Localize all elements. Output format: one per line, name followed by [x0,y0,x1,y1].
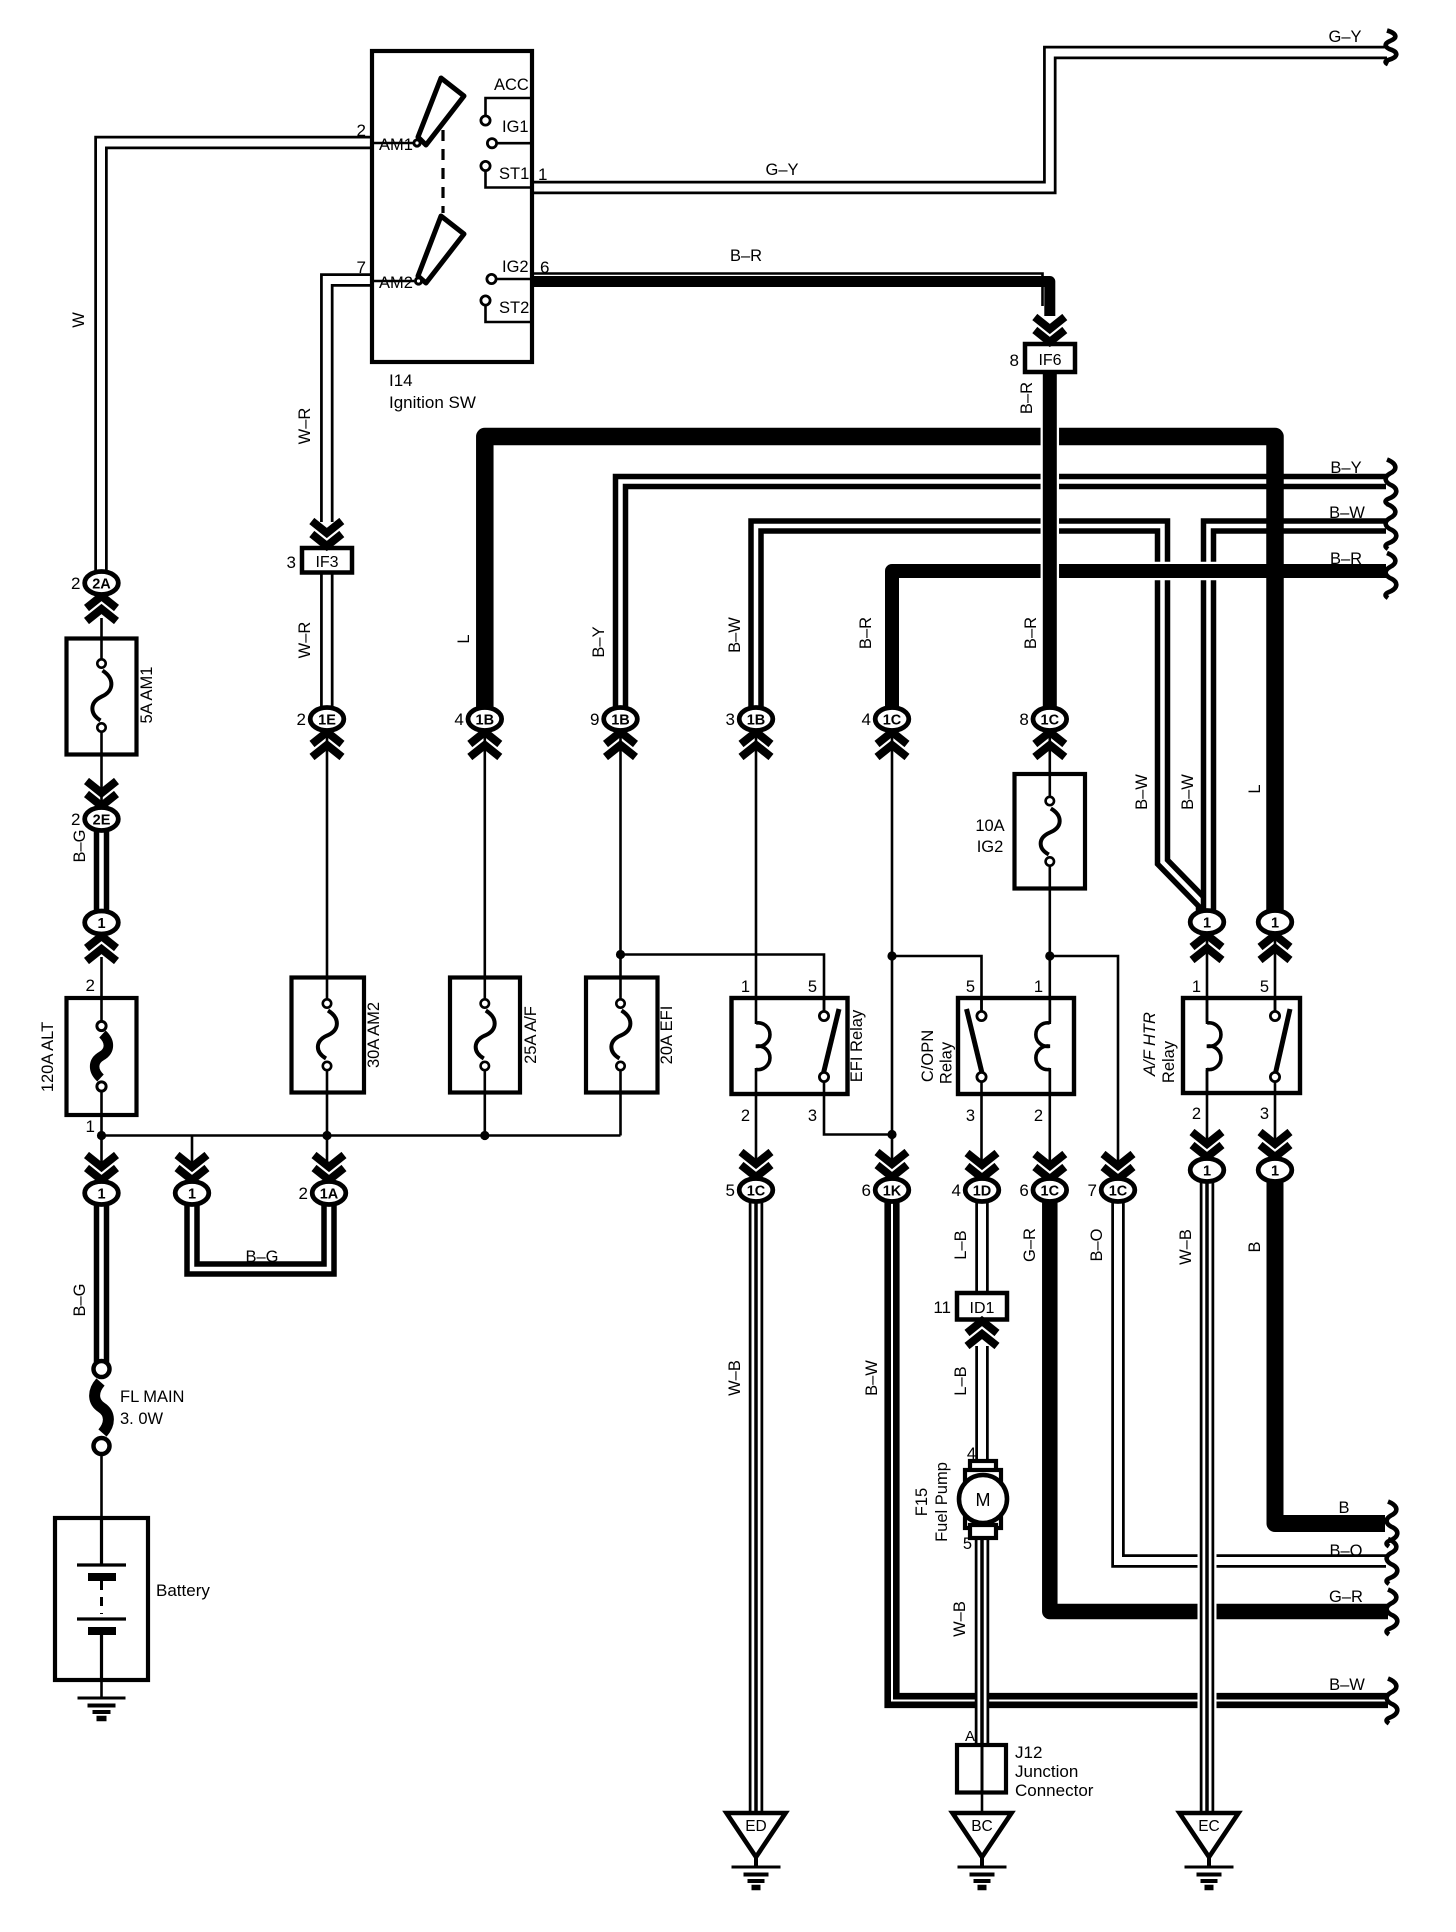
wire connector 1 to A/F HTR relay pin 5 [1274,935,1277,1014]
svg-text:IF6: IF6 [1038,352,1061,369]
arrow into 1C(5) [741,1152,771,1177]
svg-text:ST2: ST2 [499,299,529,317]
wire L from connector 1B to connector 1 [485,437,1275,911]
svg-text:1: 1 [86,1117,95,1136]
svg-text:B–R: B–R [730,247,762,265]
svg-text:1: 1 [1034,978,1043,996]
connector 1 AF top-left [1190,911,1224,934]
connector 1C pin4 [875,708,909,731]
wire ignition IG2 contact [496,278,532,281]
svg-text:1E: 1E [318,713,336,729]
connector 1B pin4 [468,708,502,731]
wire B-R from IF6 to connector 1C [1041,372,1060,707]
arrow into IF3 [312,521,342,546]
svg-text:3: 3 [287,553,296,572]
wire L-B from ID1 to fuel pump [975,1346,989,1464]
wire fuse 5A AM1 to connector 2E [100,730,103,808]
svg-text:AM1: AM1 [379,136,413,154]
connector 1C pin7 [1101,1179,1135,1202]
svg-text:B–G: B–G [245,1248,278,1266]
fuse 5A AM1 box [67,639,137,755]
svg-text:W–R: W–R [296,622,314,659]
svg-text:B–R: B–R [857,617,875,649]
svg-text:1B: 1B [611,713,630,729]
wire battery to ground [100,1680,103,1698]
svg-text:B–O: B–O [1088,1228,1106,1261]
svg-text:Ignition SW: Ignition SW [389,393,476,412]
svg-text:EFI Relay: EFI Relay [848,1009,866,1082]
svg-text:5: 5 [808,978,817,996]
node EFI pin3 junction [887,1130,896,1139]
arrow into 2E [87,781,117,806]
fuse 25A A/F element [481,999,489,1007]
svg-text:B–Y: B–Y [1330,459,1361,477]
wire A/F HTR relay pin 2 to connector 1 [1206,1070,1209,1144]
svg-text:IF3: IF3 [315,554,338,571]
contact AM1 [412,138,421,147]
wire C/OPN relay pin 3 to connector 1D [980,1080,983,1165]
arrow into 1C(6) [1035,1154,1065,1179]
svg-text:4: 4 [862,710,871,729]
relay A/F HTR switch [1274,998,1277,1011]
fuse IF3 box [302,548,352,573]
svg-text:B–O: B–O [1329,1542,1362,1560]
node bus-ALT junction [97,1131,106,1140]
contact IG1 [487,139,496,148]
svg-text:1: 1 [97,916,105,932]
svg-text:5: 5 [963,1535,972,1553]
wire B from connector 1 to right edge [1275,1182,1385,1524]
svg-text:2: 2 [741,1107,750,1125]
wire node to connector 1C(7) [1050,956,1118,1165]
svg-text:L: L [455,634,473,643]
svg-text:Connector: Connector [1015,1781,1094,1800]
svg-text:4: 4 [454,710,463,729]
svg-text:2: 2 [357,121,366,140]
wire ignition AM2 pin lead [374,280,414,283]
fuse IF6 box [1025,344,1075,372]
svg-text:W: W [70,312,88,328]
wire connector 1 to A/F HTR relay pin 1 [1206,935,1209,1022]
svg-text:1C: 1C [747,1184,766,1200]
ground BC [953,1813,1012,1857]
fuse 120A ALT box [67,998,137,1115]
wire connector 1 to fuse 120A ALT [100,957,103,1024]
svg-text:ID1: ID1 [970,1300,995,1317]
fuse 20A EFI element [616,999,624,1007]
wire node to EFI relay pin 5 [621,955,825,1015]
svg-text:W–B: W–B [726,1360,744,1396]
svg-text:B–G: B–G [71,829,89,862]
svg-text:2: 2 [71,574,80,593]
svg-text:I14: I14 [389,371,413,390]
svg-text:G–Y: G–Y [765,161,798,179]
svg-text:G–R: G–R [1021,1228,1039,1262]
ignition switch I14 box [372,51,532,362]
connector torn B-W [1386,504,1397,549]
svg-text:3: 3 [726,710,735,729]
svg-text:IG1: IG1 [502,118,529,136]
svg-text:B: B [1338,1499,1349,1517]
svg-text:IG2: IG2 [977,838,1004,856]
wire W-R from IF3 to connector 1E [320,573,334,708]
wire B-R from connector 1C to right edge [892,571,1386,707]
wire W-B from connector 1 to ground EC [1198,1182,1217,1813]
svg-text:5A AM1: 5A AM1 [138,667,156,724]
node EFI-feed junction [616,950,625,959]
fuse FL MAIN element [94,1361,110,1377]
svg-text:B–W: B–W [1133,774,1151,810]
connector torn B-O [1387,1539,1398,1584]
arrow into 1B(4) [470,732,500,757]
arrow into IF6 [1035,317,1065,342]
wire connector 1B(4) to fuse 25A A/F [483,731,486,1001]
fuse 30A AM2 element [323,999,331,1007]
connector torn B-W bottom [1387,1679,1398,1724]
svg-text:7: 7 [357,258,366,277]
wire fuse 10A IG2 to C/OPN relay pin 1 [1049,862,1052,1022]
arrow into 1C(4) [877,732,907,757]
ignition key wedge AM1 [418,78,464,145]
wire connector 1C(4) to connector 1K [891,731,894,1165]
wire ignition AM1 pin lead [374,142,413,145]
svg-text:2: 2 [297,710,306,729]
svg-text:1: 1 [188,1187,196,1203]
svg-text:W–B: W–B [1177,1229,1195,1265]
arrow into 1C(7) [1103,1154,1133,1179]
connector 1 AF bot-right [1258,1159,1292,1182]
svg-text:IG2: IG2 [502,258,529,276]
junction connector J12 [957,1745,1006,1793]
connector 1C pin6 [1033,1179,1067,1202]
wire B-W from connector 1K to right edge [892,1202,1388,1701]
svg-text:2: 2 [71,810,80,829]
svg-text:EC: EC [1198,1818,1220,1835]
wire connector 1B(9) to fuse 20A EFI [619,731,622,1001]
connector 1C pin8 [1033,708,1067,731]
svg-text:10A: 10A [975,817,1004,835]
relay C/OPN coil [1049,998,1052,1024]
arrow into ID1 [967,1321,997,1346]
connector 2A [85,572,119,595]
wire node to C/OPN relay pin 5 [892,956,982,1014]
svg-text:1: 1 [97,1187,105,1203]
connector torn B-Y [1386,460,1397,505]
svg-text:Fuel Pump: Fuel Pump [933,1462,951,1542]
svg-text:8: 8 [1019,710,1028,729]
svg-text:1: 1 [741,978,750,996]
contact IG2 [487,274,496,283]
svg-text:1: 1 [1271,1164,1279,1180]
svg-text:B–R: B–R [1018,382,1036,414]
svg-text:B–R: B–R [1330,550,1362,568]
connector 2E [85,808,119,831]
svg-text:2: 2 [86,976,95,995]
svg-text:G–R: G–R [1329,1588,1363,1606]
arrow into connector 1 AF left [1192,935,1222,960]
svg-text:A: A [965,1728,975,1745]
ignition key wedge AM2 [418,216,464,283]
svg-text:B–W: B–W [863,1360,881,1396]
contact AM2 [414,276,423,285]
svg-text:1: 1 [1271,916,1279,932]
svg-text:1C: 1C [1109,1184,1128,1200]
wire B-W from connector 1B west branch [756,526,1204,912]
svg-text:1: 1 [1192,978,1201,996]
contact ST1 [481,161,490,170]
wire B-W to right edge east branch [1209,526,1387,912]
arrow into 1C(8) [1035,732,1065,757]
arrow into connector 1 col2 [177,1155,207,1180]
wire ignition IG1 contact [497,142,533,145]
connector 1D pin4 [965,1179,999,1202]
svg-text:B–W: B–W [1329,1676,1365,1694]
wire EFI relay pin 3 elbow [824,1080,892,1135]
svg-text:1K: 1K [883,1184,902,1200]
wire connector 2A to fuse 5A AM1 [100,618,103,661]
svg-text:B–Y: B–Y [590,626,608,657]
svg-text:B–W: B–W [1329,504,1365,522]
svg-text:1: 1 [538,165,547,184]
fuse 25A A/F box [450,978,520,1093]
wire G-R from connector 1C to right edge [1050,1202,1388,1612]
svg-text:1C: 1C [1041,1184,1060,1200]
connector torn B-R [1386,553,1397,598]
wire B-O from connector 1C to right edge [1118,1202,1386,1561]
wire W from AM1 to connector 2A [101,143,374,572]
wire B-R from IG2 to IF6 [533,282,1050,317]
wire connector 1B(3) to EFI relay pin 1 [755,731,758,1000]
svg-text:2E: 2E [93,813,111,829]
connector torn G-R [1387,1590,1398,1635]
svg-text:9: 9 [590,710,599,729]
wire B-G from connector 2E to connector 1 [94,831,110,911]
svg-text:FL MAIN: FL MAIN [120,1388,184,1406]
wire fuse 25A A/F to bus [483,1068,486,1136]
svg-text:J12: J12 [1015,1743,1042,1762]
svg-text:L–B: L–B [952,1230,970,1259]
svg-text:B–G: B–G [71,1283,89,1316]
connector 1 AF bot-left [1190,1159,1224,1182]
svg-text:Junction: Junction [1015,1762,1078,1781]
svg-text:3. 0W: 3. 0W [120,1410,164,1428]
connector 1K pin6 [875,1179,909,1202]
svg-text:2A: 2A [92,577,111,593]
wire ignition ACC contact elbow [486,98,533,116]
relay C/OPN switch [980,998,983,1011]
wire main bus from 120A ALT [102,1134,621,1137]
wire ignition ST1 contact elbow [486,171,533,188]
arrow into 1E [312,732,342,757]
relay EFI box [732,998,848,1094]
ignition key link dashed [441,130,444,213]
svg-text:6: 6 [1019,1181,1028,1200]
fuse 120A ALT element [97,1021,106,1030]
svg-text:ED: ED [745,1818,767,1835]
arrow into connector 1A [314,1155,344,1180]
svg-text:ACC: ACC [494,76,529,94]
svg-text:B–W: B–W [1179,774,1197,810]
svg-text:5: 5 [726,1181,735,1200]
wire connector 1E to fuse 30A AM2 [326,731,329,1001]
wire to battery from FL MAIN [100,1450,103,1518]
svg-text:5: 5 [1260,978,1269,996]
svg-text:Relay: Relay [1160,1040,1178,1083]
node bus-A/F junction [480,1131,489,1140]
node IG2-feed junction [1045,951,1054,960]
arrow into 2A [87,596,117,621]
svg-text:C/OPN: C/OPN [919,1030,937,1082]
connector 1E [310,708,344,731]
svg-text:L: L [1246,784,1264,793]
wire B-G from connector 1 to FL MAIN [94,1205,110,1366]
connector torn G-Y [1386,31,1397,65]
connector 1C pin5 [739,1179,773,1202]
svg-text:L–B: L–B [952,1366,970,1395]
svg-text:120A ALT: 120A ALT [39,1022,57,1092]
wire J12 to ground BC [981,1792,984,1813]
svg-text:7: 7 [1088,1181,1097,1200]
arrow into 1K [877,1152,907,1177]
arrow into 1D [967,1153,997,1178]
node bus-AM2 junction [322,1131,331,1140]
wire W-B from connector 1C to ground ED [749,1202,764,1813]
svg-text:AM2: AM2 [379,274,413,292]
svg-text:1C: 1C [883,713,902,729]
ground ED [727,1813,786,1857]
arrow into connector 1 AF pin2 [1192,1132,1222,1157]
relay EFI switch [823,998,826,1011]
node C/OPN-feed junction [887,951,896,960]
svg-text:1D: 1D [973,1184,992,1200]
battery symbol [100,1518,103,1565]
fuse 10A IG2 box [1015,774,1086,889]
connector 1B pin9 [604,708,638,731]
svg-text:1A: 1A [320,1187,339,1203]
svg-text:1: 1 [1203,1164,1211,1180]
battery box [55,1518,148,1680]
svg-text:F15: F15 [913,1488,931,1516]
svg-text:Relay: Relay [938,1041,956,1084]
svg-text:8: 8 [1010,351,1019,370]
wire EFI relay pin 2 to connector 1C(5) [755,1094,758,1164]
wire C/OPN relay pin 2 to connector 1C(6) [1049,1070,1052,1166]
svg-text:B–R: B–R [1022,617,1040,649]
connector 1B pin3 [739,708,773,731]
relay A/F HTR coil [1206,998,1209,1024]
fuse 5A AM1 element [97,659,105,667]
contact ST2 [481,296,490,305]
svg-text:G–Y: G–Y [1328,28,1361,46]
fuse 30A AM2 box [292,978,365,1093]
wire B-G from connector 1 to connector 1A [192,1205,329,1269]
wire W-R from AM2 to IF3 [327,280,374,522]
svg-text:25A A/F: 25A A/F [522,1006,540,1064]
wire B-R thin companion from IG2 [533,274,1043,307]
connector 1 bottom col1 [85,1182,119,1205]
svg-text:ST1: ST1 [499,165,529,183]
relay A/F HTR box [1183,998,1300,1093]
fuse 10A IG2 element [1046,797,1054,805]
svg-text:4: 4 [967,1445,976,1463]
svg-text:2: 2 [1192,1105,1201,1123]
svg-text:3: 3 [1260,1105,1269,1123]
wire L-B from connector 1D to ID1 [975,1202,989,1293]
wire fuse 30A AM2 to connector 1A [326,1068,329,1168]
svg-text:BC: BC [971,1818,993,1835]
wire fuse 20A EFI to bus [619,1068,622,1136]
contact ACC [481,116,490,125]
ground battery [78,1697,126,1700]
svg-text:4: 4 [952,1181,961,1200]
wire connector 1C(8) to fuse 10A IG2 [1049,731,1052,801]
svg-text:2: 2 [299,1184,308,1203]
svg-text:11: 11 [933,1298,951,1317]
svg-text:5: 5 [966,978,975,996]
wire bus branch to connector 1 [191,1136,194,1169]
wire G-Y from ST1 to right edge [533,53,1387,188]
svg-text:W–B: W–B [951,1601,969,1637]
svg-text:Battery: Battery [156,1581,210,1600]
svg-text:1C: 1C [1041,713,1060,729]
svg-text:W–R: W–R [296,408,314,445]
connector torn B [1387,1502,1398,1547]
connector 1 AF top-right [1258,911,1292,934]
fuel pump F15 motor [970,1461,996,1474]
arrow into connector 1 left [87,936,117,961]
wire 120A ALT to connector 1 [100,1088,103,1168]
svg-text:2: 2 [1034,1107,1043,1125]
svg-text:M: M [976,1490,991,1510]
svg-text:B: B [1246,1241,1264,1252]
arrow into 1B(9) [606,732,636,757]
svg-text:A/F HTR: A/F HTR [1141,1012,1159,1077]
svg-text:30A AM2: 30A AM2 [365,1002,383,1068]
wire B-Y from connector 1B to right edge [621,482,1387,708]
svg-text:6: 6 [540,258,549,277]
connector 1A [312,1182,346,1205]
svg-text:20A EFI: 20A EFI [658,1006,676,1065]
relay EFI coil [755,998,758,1024]
wire W-B from fuel pump to J12 [975,1537,990,1745]
junction ID1 box [957,1293,1007,1320]
arrow into connector 1 col1 [87,1155,117,1180]
relay C/OPN box [958,998,1074,1094]
svg-text:1: 1 [1203,916,1211,932]
svg-text:B–W: B–W [726,617,744,653]
arrow into 1B(3) [741,732,771,757]
arrow into connector 1 AF right [1260,935,1290,960]
connector 1 bottom col2 [175,1182,209,1205]
svg-text:3: 3 [808,1107,817,1125]
connector 1 left mid [85,911,119,934]
svg-text:1B: 1B [476,713,495,729]
ground EC [1180,1813,1239,1857]
arrow into connector 1 AF pin3 [1260,1132,1290,1157]
svg-text:3: 3 [966,1107,975,1125]
wire ignition ST2 contact elbow [486,305,533,322]
svg-text:1B: 1B [747,713,766,729]
svg-text:6: 6 [862,1181,871,1200]
wire A/F HTR relay pin 3 to connector 1 [1274,1080,1277,1144]
fuse 20A EFI box [586,978,658,1093]
